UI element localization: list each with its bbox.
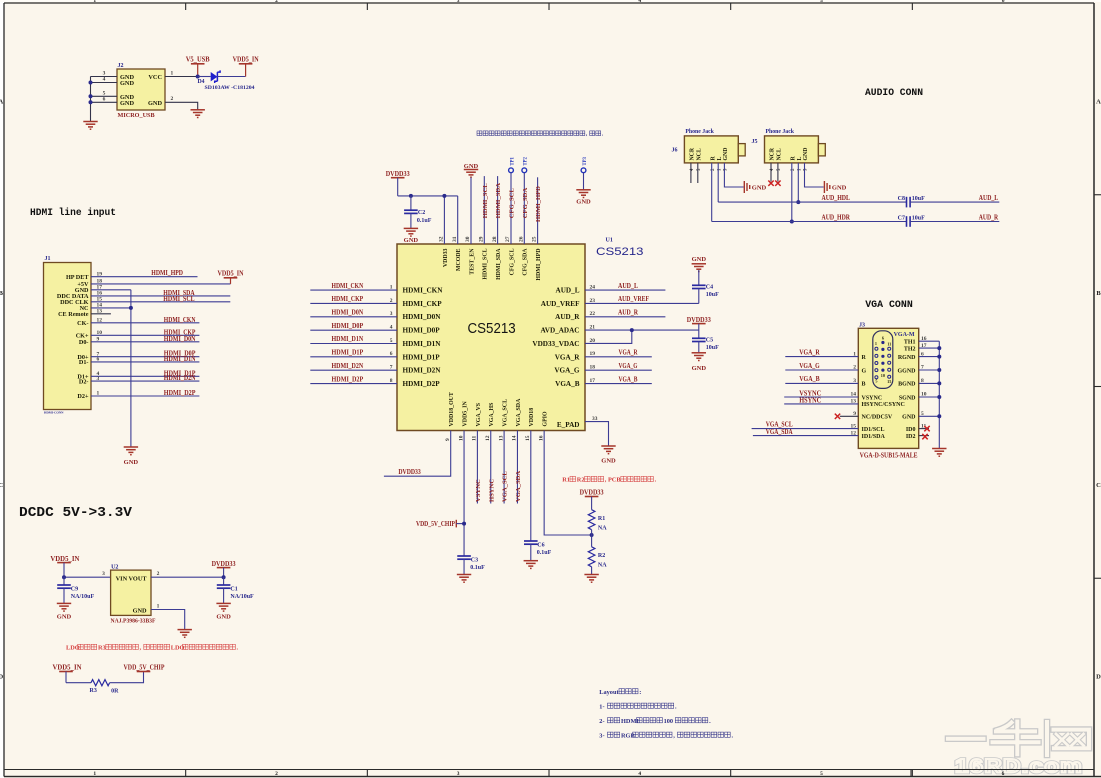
ground above C4: [692, 256, 707, 272]
U1 pin 10 VDD5_IN: [458, 401, 468, 441]
wire NC/DDC5V stub: [840, 415, 859, 417]
wire C5 to ground: [698, 342, 700, 353]
svg-text:12: 12: [485, 435, 491, 441]
capacitor C9 NA/10uF: [57, 585, 94, 600]
junction R1 R2 node: [590, 533, 594, 537]
power port VDD5_IN (DCDC): [50, 555, 79, 577]
svg-text:VCC: VCC: [148, 74, 162, 81]
power port DVDD33 (DCDC): [212, 560, 236, 577]
svg-text:R2: R2: [598, 553, 605, 559]
title AUDIO CONN: [865, 88, 923, 99]
wire VGA_B (U1 side): [585, 376, 652, 383]
wire VGA_R (U1 side): [585, 350, 652, 357]
wire C3 to ground: [463, 559, 465, 574]
svg-text:AUD_VREF: AUD_VREF: [618, 296, 649, 303]
wire J5 NCL stub: [777, 163, 779, 182]
wire J5 GND: [805, 163, 824, 187]
ground TP3: [576, 190, 591, 206]
test point TP2: [522, 156, 529, 172]
J3 pin 10 SGND: [899, 392, 927, 402]
power port VDD5_IN (USB): [233, 56, 259, 77]
junction AVD node: [630, 328, 634, 332]
svg-text:6: 6: [1002, 0, 1005, 4]
note blue item3: [599, 732, 733, 739]
svg-text:13: 13: [498, 435, 504, 441]
U1 pin 30 TEST_EN: [465, 236, 475, 274]
svg-text:10: 10: [458, 435, 464, 441]
U1 pin 14 VGA_SDA: [512, 398, 522, 441]
power port VDD5_IN (R3): [53, 664, 82, 683]
J2 pin 3: [91, 71, 118, 77]
svg-text:VGA_G: VGA_G: [619, 363, 639, 370]
svg-text:9: 9: [445, 438, 451, 441]
wire HDMI_D0P (J1 side): [91, 351, 199, 358]
svg-text:HDMI_D2P: HDMI_D2P: [403, 380, 441, 388]
J3 pin 6 RGND: [898, 351, 924, 361]
svg-text:5: 5: [875, 379, 877, 384]
svg-text:HDMI_D1N: HDMI_D1N: [164, 356, 196, 363]
svg-text:VGA_SCL: VGA_SCL: [502, 471, 509, 502]
wire AUD_L: [585, 283, 665, 290]
svg-text:GND: GND: [120, 100, 134, 107]
svg-text:2: 2: [390, 298, 393, 304]
wire VGA_SCL (below U1): [502, 431, 509, 504]
J3 pin 5 GND: [902, 411, 924, 421]
J1 pin 17 GND: [75, 285, 103, 295]
J1 pin 14 NC: [80, 303, 103, 313]
svg-text:AUD_VREF: AUD_VREF: [541, 300, 580, 308]
no-ERC X J5 NCL: [775, 181, 780, 186]
U1 pin 11 VGA_VS: [472, 402, 482, 441]
junction C2 tap: [409, 194, 413, 198]
junction V5_USB node: [196, 75, 200, 79]
wire VSYNC (J3): [784, 390, 858, 397]
wire HDMI_SDA pin28: [495, 176, 502, 244]
power port DVDD33 (R1): [580, 489, 604, 510]
wire J6 L to AUD_HDL: [717, 163, 719, 202]
junction VDD_5V_CHIP node: [462, 522, 466, 526]
regulator U2 body: [111, 564, 156, 624]
svg-text:L: L: [717, 157, 723, 161]
U1 pin 13 VGA_SCL: [498, 399, 508, 441]
svg-text:1: 1: [157, 603, 160, 609]
wire J3 ground bus: [919, 341, 940, 448]
svg-text:VDD18: VDD18: [529, 408, 535, 427]
svg-text:DVDD33: DVDD33: [212, 560, 236, 568]
svg-text:4: 4: [103, 77, 106, 83]
svg-text:V5_USB: V5_USB: [186, 56, 210, 64]
wire HDMI_CKN (U1 side): [310, 283, 397, 290]
svg-text:VGA_R: VGA_R: [555, 353, 581, 361]
J3 pin 1 R: [853, 351, 866, 361]
svg-text:27: 27: [505, 236, 511, 242]
wire VDD5_IN to U2 VIN: [64, 571, 111, 577]
J3 pin 9 NC/DDC5V: [853, 411, 893, 421]
ground U2: [178, 630, 192, 638]
wire E_PAD to ground: [585, 422, 609, 446]
svg-text:CE Remote: CE Remote: [58, 311, 89, 318]
svg-text:Phone Jack: Phone Jack: [685, 129, 714, 135]
capacitor C7 10uF: [898, 215, 925, 226]
wire VDD33_VDAC pin20: [585, 330, 632, 343]
capacitor C3 0.1uF: [457, 556, 485, 571]
svg-text:2-: 2-: [599, 718, 604, 725]
svg-text:15: 15: [525, 435, 531, 441]
U1 pin 7 HDMI_D2N: [390, 365, 441, 375]
svg-text:HDMI_HPD: HDMI_HPD: [536, 249, 542, 281]
svg-text:NCL: NCL: [696, 148, 702, 160]
wire HDMI_CKP (U1 side): [310, 296, 397, 303]
test point TP3: [581, 156, 588, 172]
svg-text:VOUT: VOUT: [129, 576, 148, 583]
wire J2 ground bus: [90, 77, 92, 122]
wire GPIO pin16: [544, 431, 591, 536]
svg-text:15: 15: [887, 379, 891, 384]
wire R3 to VDD_5V_CHIP: [110, 672, 144, 683]
svg-text:MCODE: MCODE: [456, 248, 462, 271]
U1 pin 12 VGA_HS: [485, 402, 495, 441]
svg-text:C6: C6: [537, 543, 544, 549]
svg-text:NCR: NCR: [690, 147, 696, 160]
U1 pin 6 HDMI_D1P: [390, 351, 440, 361]
svg-text:AUD_R: AUD_R: [979, 215, 998, 222]
svg-text:J2: J2: [118, 63, 124, 69]
wire J6 NCL stub: [697, 163, 699, 183]
svg-text:C3: C3: [471, 558, 478, 564]
ground below C6: [524, 561, 538, 569]
svg-text:AVD_ADAC: AVD_ADAC: [541, 327, 580, 335]
svg-text:32: 32: [439, 236, 445, 242]
svg-text:HDMI_SDA: HDMI_SDA: [496, 248, 502, 280]
U1 pin 20 VDD33_VDAC: [532, 338, 595, 348]
U1 pin 26 CFG_SDA: [518, 236, 528, 275]
U1 pin 16 GPIO: [538, 411, 548, 441]
U1 pin 3 HDMI_D0N: [390, 311, 441, 321]
svg-text:HDMI_D1P: HDMI_D1P: [403, 353, 441, 361]
svg-text:VGA_B: VGA_B: [555, 380, 580, 388]
wire VGA_R (J3): [785, 349, 858, 356]
junction J3 bus y356: [937, 355, 941, 359]
ground below C2: [404, 228, 419, 244]
J3 pin 13 HSYNC/CSYNC: [851, 399, 905, 409]
svg-text:J6: J6: [672, 148, 678, 154]
svg-text:HDMI_SCL: HDMI_SCL: [482, 183, 489, 218]
J3 pin 15 ID1/SCL: [851, 423, 885, 433]
U1 pin 22 AUD_R: [555, 311, 595, 321]
ground J3 bus: [932, 449, 946, 457]
U1 pin 8 HDMI_D2P: [390, 378, 440, 388]
wire node to R2: [591, 535, 593, 547]
svg-text:CS5213: CS5213: [468, 321, 516, 337]
svg-text:DVDD33: DVDD33: [580, 489, 604, 497]
svg-text:HDMI_HPD: HDMI_HPD: [151, 270, 183, 277]
svg-text:3: 3: [457, 0, 460, 4]
note blue layout title: [599, 689, 641, 696]
wire HDMI_D2P (J1 side): [91, 390, 199, 397]
title DCDC 5V-3.3V: [19, 505, 133, 521]
U1 pin 18 VGA_G: [554, 365, 595, 375]
wire CFG_SCL pin27: [509, 173, 516, 244]
svg-text:, PCB: , PCB: [605, 477, 622, 484]
svg-text:VGA_G: VGA_G: [554, 367, 580, 375]
svg-text:DVDD33: DVDD33: [687, 316, 711, 324]
svg-text:GND: GND: [752, 185, 767, 192]
svg-text:HDMI_D0P: HDMI_D0P: [403, 327, 441, 335]
svg-text:ID1/SCL: ID1/SCL: [862, 427, 885, 433]
svg-text:17: 17: [590, 378, 596, 384]
wire ID2 stub: [919, 435, 929, 437]
wire J6 NCR stub: [690, 163, 692, 183]
svg-text:AUD_HDL: AUD_HDL: [822, 195, 851, 202]
svg-text:HDMI_SCL: HDMI_SCL: [483, 248, 489, 279]
wire VDD5_IN pin10: [463, 431, 465, 557]
svg-text:10uF: 10uF: [706, 292, 719, 298]
svg-text:18: 18: [590, 365, 596, 371]
wire V5_USB to D4: [198, 76, 211, 78]
U1 pin 2 HDMI_CKP: [390, 298, 442, 308]
svg-text:8: 8: [390, 378, 393, 384]
svg-text:31: 31: [452, 236, 458, 242]
svg-text:C8: C8: [898, 196, 905, 202]
svg-text:HDMI_CKN: HDMI_CKN: [403, 287, 444, 295]
wire C1 to ground: [223, 588, 225, 603]
wire C6 to ground: [530, 544, 532, 561]
capacitor C5 10uF: [692, 338, 719, 351]
power port VDD5_IN (J1): [218, 270, 244, 284]
junction J5 L node: [796, 200, 800, 204]
wire HDMI_CKN (J1 side): [91, 317, 199, 324]
svg-text:A: A: [1096, 98, 1101, 105]
wire HDMI_D0N (U1 side): [310, 310, 397, 317]
svg-text:R2: R2: [577, 477, 585, 484]
wire J6 GND: [724, 163, 743, 187]
svg-text::: :: [639, 689, 641, 696]
svg-text:24: 24: [590, 284, 596, 290]
test point TP1: [509, 156, 516, 172]
svg-text:5: 5: [390, 338, 393, 344]
svg-text:29: 29: [479, 236, 485, 242]
svg-text:3: 3: [390, 311, 393, 317]
J2 pin 1 VCC wire: [165, 70, 198, 76]
ground J6 (sideways): [744, 181, 766, 193]
wire DVDD33 rail to pins 32/31: [398, 196, 458, 244]
svg-text:VGA_VS: VGA_VS: [476, 402, 482, 426]
svg-text:VDD18_OUT: VDD18_OUT: [449, 392, 455, 426]
svg-text:ID1/SDA: ID1/SDA: [862, 434, 886, 440]
wire C4 to AUD_VREF: [698, 289, 700, 304]
svg-text:10uF: 10uF: [912, 196, 925, 202]
ground below C9: [57, 603, 72, 620]
wire HDMI_HPD (J1.19): [91, 270, 198, 277]
junction J2 bus pin6: [89, 100, 93, 104]
wire to C1: [223, 577, 225, 585]
svg-text:NCR: NCR: [770, 147, 776, 160]
svg-text:AUD_R: AUD_R: [555, 313, 580, 321]
svg-text:22: 22: [590, 311, 596, 317]
svg-text:NA: NA: [598, 563, 607, 569]
svg-text:TP1: TP1: [510, 156, 515, 165]
wire J1 NC pin14: [91, 307, 131, 309]
svg-text:VGA-M: VGA-M: [894, 332, 915, 338]
J3 pin 14 VSYNC: [851, 392, 883, 402]
svg-text:100: 100: [664, 718, 673, 725]
U1 pin 29 HDMI_SCL: [479, 236, 489, 279]
svg-text:Phone Jack: Phone Jack: [766, 129, 795, 135]
svg-text:CK-: CK-: [77, 320, 88, 327]
svg-text:HDMI_D2N: HDMI_D2N: [403, 367, 442, 375]
wire J1 GND pin17: [91, 289, 131, 291]
wire U2 VOUT pin2: [151, 571, 224, 577]
svg-text:B: B: [862, 382, 866, 388]
svg-text:TH2: TH2: [904, 346, 916, 352]
svg-text:GND: GND: [148, 100, 162, 107]
svg-text:TEST_EN: TEST_EN: [469, 248, 475, 275]
junction J2 bus pin4: [89, 81, 93, 85]
connector J6 Phone Jack body: [672, 129, 746, 171]
svg-text:VDD5_IN: VDD5_IN: [218, 270, 244, 278]
svg-text:C1: C1: [230, 586, 237, 592]
ground E_PAD: [601, 446, 616, 465]
svg-text:DVDD33: DVDD33: [398, 469, 421, 476]
svg-text:HDMI line input: HDMI line input: [30, 207, 116, 219]
svg-text:6: 6: [1002, 771, 1005, 777]
svg-text:ID2: ID2: [906, 434, 916, 440]
capacitor C6 0.1uF: [524, 541, 552, 556]
wire AVD_ADAC pin21: [585, 329, 699, 331]
wire +5V (J1.18): [91, 283, 231, 285]
svg-text:AUD_R: AUD_R: [618, 310, 638, 317]
svg-text:NAJ.P3986-33B3F: NAJ.P3986-33B3F: [111, 619, 156, 625]
J3 pin 12 ID2: [906, 434, 916, 440]
wire DVDD33 (pin9): [384, 431, 451, 477]
svg-text:AUD_L: AUD_L: [618, 283, 638, 290]
svg-text:TP3: TP3: [583, 156, 588, 165]
wire HDMI_SCL (J1.15): [91, 296, 230, 303]
svg-text:D: D: [1096, 674, 1101, 681]
svg-text:HDMI_D0N: HDMI_D0N: [164, 336, 196, 343]
junction J3 bus y383: [937, 381, 941, 385]
svg-text:VGA_HS: VGA_HS: [489, 402, 495, 427]
ground TEST_EN: [464, 163, 479, 177]
svg-text:VDD5_IN: VDD5_IN: [53, 664, 82, 672]
U1 pin 32 VDD33: [439, 236, 449, 267]
U1 pin 33 E_PAD: [557, 416, 598, 429]
J1 pin 12 CK-: [77, 318, 102, 328]
U1 pin 25 HDMI_HPD: [532, 236, 542, 280]
svg-text:30: 30: [465, 236, 471, 242]
svg-text:AUD_L: AUD_L: [979, 195, 999, 202]
ground J2 pin2: [191, 110, 205, 118]
svg-text:R3: R3: [98, 645, 106, 652]
wire HDMI_D1N (J1 side): [91, 356, 199, 363]
connector J2 MICRO_USB body: [117, 63, 165, 119]
U1 pin 24 AUD_L: [556, 284, 596, 294]
J1 pin 3 D2-: [79, 376, 100, 386]
wire HDMI_D1P (U1 side): [310, 350, 397, 357]
svg-text:R1: R1: [598, 516, 605, 522]
J1 pin 6 D1-: [79, 357, 100, 367]
ground below R2: [584, 575, 598, 583]
wire J1 CE Remote stub: [91, 313, 111, 315]
wire to C9: [63, 577, 65, 585]
svg-text:33: 33: [592, 416, 598, 422]
svg-text:GND: GND: [57, 614, 72, 621]
svg-text:GND: GND: [803, 148, 809, 161]
power port V5_USB: [186, 56, 210, 77]
svg-text:VDD5_IN: VDD5_IN: [462, 401, 468, 427]
wire HDMI_D1N (U1 side): [310, 336, 397, 343]
svg-text:6: 6: [882, 335, 884, 340]
svg-text:HDMI_CKP: HDMI_CKP: [403, 300, 443, 308]
svg-text:10uF: 10uF: [706, 345, 719, 351]
svg-text:R3: R3: [90, 688, 97, 694]
J3 pin 8 BGND: [898, 378, 924, 388]
wire TP3 to ground: [583, 173, 585, 190]
svg-text:3: 3: [102, 571, 105, 577]
svg-text:VGA_SCL: VGA_SCL: [766, 422, 793, 429]
svg-text:HDMI-CONN: HDMI-CONN: [44, 411, 64, 415]
svg-text:7: 7: [390, 365, 393, 371]
wire AUD_L: [910, 195, 999, 202]
svg-text:2: 2: [157, 571, 160, 577]
svg-text:RGB: RGB: [621, 732, 635, 739]
note blue item2: [599, 718, 711, 725]
resistor R2 NA: [588, 547, 607, 569]
wire C2 to ground: [410, 213, 412, 228]
svg-text:14: 14: [512, 435, 518, 441]
svg-text:16: 16: [538, 435, 544, 441]
ground below C3: [457, 575, 471, 583]
net label VDD_5V_CHIP: [416, 520, 464, 528]
svg-text:GND: GND: [216, 614, 231, 621]
J3 pin 12 ID1/SDA: [851, 430, 886, 440]
svg-text:GGND: GGND: [898, 368, 917, 374]
wire HDMI_CKP (J1 side): [91, 329, 199, 336]
svg-text:C4: C4: [706, 285, 713, 291]
svg-text:CS5213: CS5213: [596, 246, 644, 258]
J2 pin 4: [91, 77, 118, 83]
svg-text:26: 26: [518, 236, 524, 242]
svg-text:HDMI_D2P: HDMI_D2P: [164, 390, 196, 397]
title HDMI line input: [30, 207, 116, 219]
svg-text:D2-: D2-: [79, 378, 89, 385]
svg-text:L: L: [797, 157, 803, 161]
wire HSYNC (below U1): [488, 431, 495, 504]
title VGA CONN: [865, 300, 913, 311]
svg-text:HDMI_SDA: HDMI_SDA: [495, 183, 502, 218]
wire C9 to ground: [63, 588, 65, 603]
junction J3 bus y416: [937, 414, 941, 418]
wire HSYNC (J3): [784, 398, 858, 405]
svg-text:VGA-D-SUB15-MALE: VGA-D-SUB15-MALE: [860, 452, 918, 460]
svg-text:VDD33: VDD33: [443, 248, 449, 267]
svg-text:NA/10uF: NA/10uF: [71, 594, 95, 600]
svg-text:AUD_L: AUD_L: [556, 287, 580, 295]
svg-text:6: 6: [103, 96, 106, 102]
capacitor C8 10uF: [898, 196, 925, 207]
svg-text:VIN: VIN: [116, 576, 128, 583]
connector J5 Phone Jack body: [752, 129, 826, 171]
watermark 16RD logo: [948, 722, 1089, 778]
wire HDMI_D2N (J1 side): [91, 375, 199, 382]
svg-text:VSYNC: VSYNC: [475, 479, 482, 502]
svg-text:BGND: BGND: [898, 382, 916, 388]
U1 pin 15 VDD18: [525, 408, 535, 441]
junction J1 bus pin14: [129, 306, 133, 310]
svg-text:GND: GND: [692, 256, 707, 263]
svg-text:U1: U1: [606, 238, 613, 244]
svg-text:SGND: SGND: [899, 395, 916, 401]
